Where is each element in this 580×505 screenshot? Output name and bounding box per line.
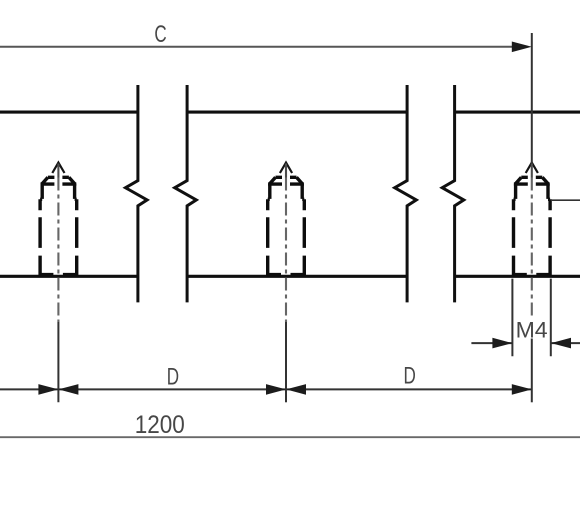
svg-text:1200: 1200 <box>135 411 185 439</box>
svg-text:D: D <box>403 363 415 390</box>
svg-text:C: C <box>154 21 166 48</box>
svg-text:M4: M4 <box>516 318 548 342</box>
svg-text:D: D <box>167 364 179 391</box>
